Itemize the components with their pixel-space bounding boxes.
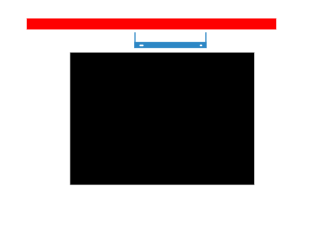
black video area (70, 53, 254, 185)
red timeline bar (27, 19, 276, 30)
bracket left tick (134, 32, 135, 48)
bracket bottom bar (134, 42, 206, 48)
bracket right tick (205, 32, 206, 48)
bracket left white dash (140, 45, 144, 46)
blue selection bracket (134, 32, 206, 48)
bracket right white dash (200, 45, 202, 46)
